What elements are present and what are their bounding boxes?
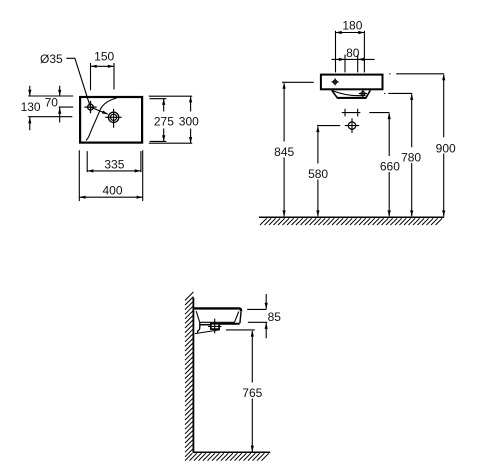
svg-text:70: 70 — [45, 96, 59, 110]
arrows 85 — [265, 303, 268, 309]
svg-text:780: 780 — [401, 151, 421, 165]
dimension 335 — [87, 151, 141, 172]
svg-text:85: 85 — [268, 310, 282, 324]
drain front — [361, 92, 365, 96]
underside step to drain box — [200, 324, 211, 326]
svg-text:400: 400 — [102, 184, 122, 198]
arrows 275 — [162, 99, 165, 105]
wall fixing holes line — [342, 109, 361, 117]
svg-text:845: 845 — [274, 145, 294, 159]
dimension 765 — [226, 330, 255, 452]
arrows 335 — [87, 169, 93, 172]
dimension 780 — [384, 93, 412, 216]
arrows 80 — [339, 58, 345, 61]
svg-text:180: 180 — [342, 18, 362, 32]
dimension 300 — [149, 96, 192, 143]
svg-text:765: 765 — [242, 386, 262, 400]
svg-text:Ø35: Ø35 — [40, 52, 63, 66]
wall hatching — [185, 292, 193, 457]
arrow leader Ø35 — [102, 111, 108, 115]
arrows 150 — [91, 65, 97, 68]
washbasin outline plan 400x300 — [80, 97, 142, 143]
bracket under basin — [197, 322, 199, 333]
arrows 130 — [28, 90, 31, 96]
dimension 80 — [332, 55, 375, 73]
dimension 580 — [317, 126, 340, 217]
svg-text:900: 900 — [436, 141, 456, 155]
dimension 900 — [389, 74, 444, 216]
leader line from label Ø35 — [66, 58, 89, 105]
svg-text:660: 660 — [380, 160, 400, 174]
dimension 660 — [369, 113, 389, 217]
wall line — [192, 298, 194, 453]
floor line side — [193, 451, 270, 453]
hidden drain diagonal — [195, 330, 220, 334]
drain box side — [211, 324, 219, 329]
arrows 70 — [58, 90, 61, 96]
bowl front — [332, 90, 371, 98]
arrows 660 — [388, 113, 391, 119]
floor line front — [259, 216, 444, 218]
svg-text:275: 275 — [154, 114, 174, 128]
faucet hole plan — [84, 101, 96, 113]
bowl inner curve front — [333, 91, 366, 96]
dimension 150 — [91, 63, 115, 90]
basin inner edge curve — [86, 98, 117, 140]
arrows 780 — [410, 94, 413, 100]
arrows 765 — [251, 330, 254, 336]
dimension 400 — [79, 150, 142, 201]
arrows 300 — [189, 96, 192, 102]
arrows 180 — [336, 31, 342, 34]
basin side profile rim — [194, 308, 241, 311]
svg-text:80: 80 — [346, 46, 360, 60]
svg-text:300: 300 — [179, 114, 199, 128]
dimension 130 — [28, 86, 72, 131]
svg-text:130: 130 — [21, 100, 41, 114]
arrows 845 — [283, 83, 286, 89]
arrowheads — [28, 31, 445, 452]
arrows 900 — [442, 74, 445, 80]
faucet hole front — [332, 78, 339, 85]
floor hatching front — [260, 218, 442, 225]
drain plan — [108, 112, 118, 122]
dimension 180 — [336, 31, 365, 73]
siphon trap crosshair — [348, 122, 355, 129]
svg-text:335: 335 — [104, 157, 124, 171]
svg-text:580: 580 — [308, 167, 328, 181]
dimension 85 — [247, 294, 267, 338]
dimension 275 — [149, 96, 192, 141]
floor hatching side — [185, 453, 269, 460]
wire leader second segment to drain — [91, 107, 108, 114]
basin inner slants side — [196, 311, 239, 322]
drain box cross — [208, 319, 221, 334]
basin side right edge — [240, 311, 241, 323]
washbasin front outline — [321, 75, 383, 90]
arrows 580 — [316, 126, 319, 132]
basin side bottom — [220, 323, 240, 325]
dimension 845 — [282, 82, 314, 216]
dimension 70 — [28, 86, 73, 123]
arrows 400 — [79, 196, 85, 199]
svg-text:150: 150 — [94, 49, 114, 63]
